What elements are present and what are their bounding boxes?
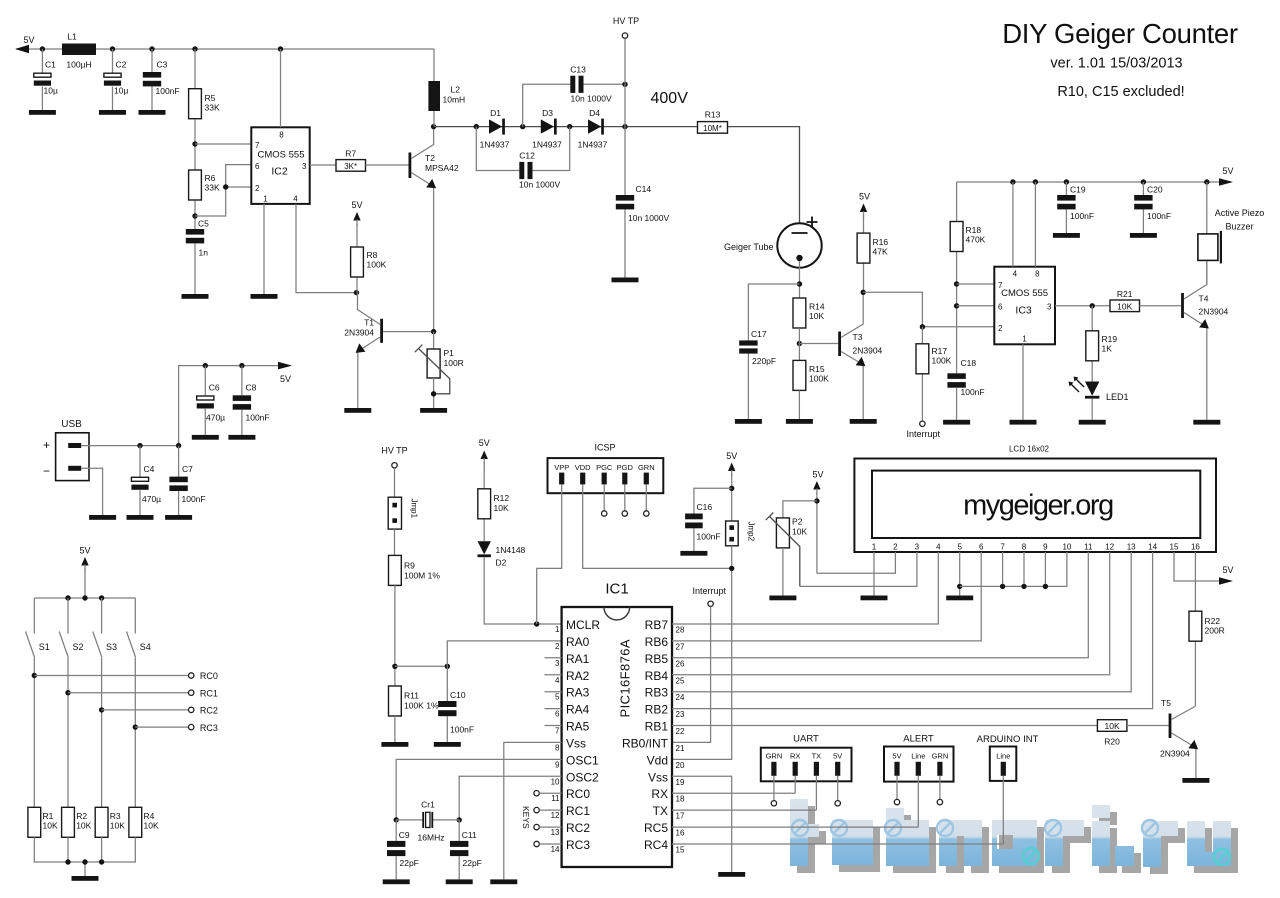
ground C7 (165, 515, 192, 520)
ground C18 (943, 420, 970, 425)
potentiometer P2 (766, 501, 817, 596)
wire ALERT Line to RC5 (672, 776, 918, 827)
svg-text:470µ: 470µ (142, 494, 161, 504)
ground LCD pin5 (946, 596, 973, 601)
svg-text:47K: 47K (873, 247, 888, 257)
wire RC1 net (65, 688, 218, 698)
svg-text:5V: 5V (23, 35, 34, 45)
svg-text:R11: R11 (404, 691, 419, 701)
svg-text:RB0/INT: RB0/INT (622, 736, 669, 750)
ground C19 (1053, 233, 1080, 238)
wire IC3 pin 1 (1022, 344, 1024, 420)
node HV TP branch (622, 124, 627, 129)
svg-text:IC1: IC1 (605, 581, 628, 598)
node rail junction C19 (1064, 179, 1069, 184)
ground P2 (769, 596, 796, 601)
wire IC3 pin 4 (1012, 182, 1014, 267)
Geiger Tube (724, 217, 822, 268)
svg-text:C7: C7 (182, 464, 193, 474)
svg-text:26: 26 (676, 659, 685, 668)
wire IC2 pin 1 to ground (263, 204, 265, 294)
wire ARDUINO Line to RC4 (672, 776, 1003, 844)
diode D1 1N4937 (480, 108, 510, 150)
svg-text:R8: R8 (367, 250, 378, 260)
svg-text:TX: TX (812, 751, 822, 760)
capacitor C8 (233, 366, 270, 435)
svg-text:RC3: RC3 (200, 723, 218, 733)
node IC1 pin numbers right (676, 626, 685, 855)
svg-text:RC2: RC2 (200, 706, 218, 716)
svg-text:D2: D2 (496, 558, 507, 568)
svg-text:7: 7 (998, 281, 1003, 290)
wire IC3 pin7 (957, 283, 995, 285)
svg-text:10K: 10K (76, 821, 91, 831)
svg-text:Cr1: Cr1 (421, 800, 435, 810)
svg-text:D3: D3 (542, 108, 553, 118)
svg-text:5V: 5V (726, 451, 737, 461)
svg-text:7: 7 (1000, 543, 1005, 552)
svg-text:Interrupt: Interrupt (907, 429, 941, 439)
svg-text:C14: C14 (636, 184, 652, 194)
capacitor C11 (450, 820, 482, 880)
svg-text:R6: R6 (205, 173, 216, 183)
svg-text:RB5: RB5 (645, 652, 669, 666)
wire RC0 net (32, 671, 218, 681)
jumper Jmp2 (726, 521, 756, 546)
svg-text:C2: C2 (116, 60, 127, 70)
node C12 right branch (567, 124, 572, 129)
svg-text:RC2: RC2 (566, 821, 590, 835)
svg-text:470K: 470K (966, 235, 986, 245)
node C10 top (445, 664, 450, 669)
node rail junction IC3 pin4 (1010, 179, 1015, 184)
svg-text:RB6: RB6 (645, 635, 669, 649)
ground R15 (786, 419, 813, 424)
svg-text:D4: D4 (589, 108, 600, 118)
node 5V keys (79, 546, 90, 599)
svg-text:16: 16 (1191, 543, 1200, 552)
svg-text:2: 2 (555, 642, 560, 651)
node 5V Jmp2 (726, 451, 737, 521)
connector ICSP (548, 443, 664, 494)
wire LCD pin1 to ground (873, 552, 875, 596)
resistor R21 (1110, 289, 1140, 312)
wire IC2 pin 4 (296, 204, 357, 293)
svg-text:KEYS: KEYS (521, 806, 531, 829)
svg-text:3: 3 (302, 162, 307, 171)
svg-text:8: 8 (279, 131, 284, 140)
svg-text:18: 18 (676, 795, 685, 804)
watermark tehnari.ru (790, 799, 1238, 874)
svg-text:CMOS 555: CMOS 555 (1001, 288, 1048, 299)
wire RB4 to LCD pin12 (672, 552, 1110, 675)
wire HVTP to Jmp1 (394, 468, 396, 497)
diode D3 1N4937 (532, 108, 562, 150)
wire RA1 stub (545, 657, 562, 659)
LED LED1 (1069, 377, 1129, 420)
potentiometer P1 (415, 332, 464, 408)
node Interrupt right (693, 586, 727, 607)
wire RB2 to LCD pin14 (672, 552, 1153, 709)
svg-text:10K: 10K (494, 503, 509, 513)
wire IC3 pin6 (957, 305, 995, 307)
wire R14 R15 (798, 328, 800, 360)
resistor R22 (1189, 552, 1225, 707)
svg-text:10K: 10K (809, 311, 824, 321)
svg-text:22pF: 22pF (463, 858, 482, 868)
svg-text:5V: 5V (833, 751, 842, 760)
ground C6 (192, 435, 219, 440)
capacitor C13 (523, 65, 625, 127)
svg-text:100nF: 100nF (961, 387, 985, 397)
svg-text:10: 10 (1062, 543, 1071, 552)
svg-text:R2: R2 (76, 811, 87, 821)
svg-text:12: 12 (1105, 543, 1114, 552)
ground T4 emitter (1193, 420, 1220, 425)
capacitor C16 (685, 488, 732, 551)
svg-text:3: 3 (555, 659, 560, 668)
ground T1 emitter (344, 408, 371, 413)
node R19 top (1090, 303, 1095, 308)
svg-text:C3: C3 (157, 60, 168, 70)
resistor R18 (950, 182, 985, 373)
svg-text:ALERT: ALERT (903, 734, 934, 745)
svg-text:10M*: 10M* (703, 124, 722, 133)
ground IC2 pin1 (251, 294, 278, 299)
connector ARDUINO INT (977, 734, 1039, 781)
svg-text:RB1: RB1 (645, 720, 669, 734)
svg-text:100nF: 100nF (246, 413, 270, 423)
svg-text:5: 5 (555, 693, 560, 702)
wire Vss pin8 (504, 742, 562, 879)
node IC3 pin6 junction (954, 303, 959, 308)
capacitor C6 (197, 366, 225, 435)
svg-text:RB7: RB7 (645, 618, 669, 632)
svg-text:RC0: RC0 (566, 787, 590, 801)
svg-text:16: 16 (676, 829, 685, 838)
svg-text:9: 9 (555, 760, 560, 769)
svg-text:2N3904: 2N3904 (344, 328, 374, 338)
svg-text:13: 13 (1127, 543, 1136, 552)
svg-text:LCD 16x02: LCD 16x02 (1009, 445, 1050, 454)
wire RA5 stub (545, 725, 562, 727)
svg-text:100K: 100K (932, 356, 952, 366)
svg-text:20: 20 (676, 761, 685, 770)
wire 5V right rail (957, 181, 1231, 183)
switch S1 (26, 598, 50, 807)
svg-text:400V: 400V (651, 90, 689, 107)
transistor T5 2N3904 (1160, 698, 1198, 778)
wire RB7 to LCD pin4 (672, 552, 938, 624)
svg-text:R19: R19 (1102, 334, 1118, 344)
svg-text:100K: 100K (809, 374, 829, 384)
wire IC2 pin 7 (195, 143, 251, 145)
svg-text:R13: R13 (705, 110, 721, 120)
svg-text:ver. 1.01 15/03/2013: ver. 1.01 15/03/2013 (1050, 56, 1182, 72)
wire R9 to R11 (394, 585, 396, 686)
svg-text:PGC: PGC (596, 463, 613, 472)
wire LCD pin9 (1044, 552, 1046, 586)
svg-text:2: 2 (998, 324, 1003, 333)
svg-text:4: 4 (936, 543, 941, 552)
node C16 tap (729, 486, 734, 491)
svg-text:C5: C5 (198, 219, 209, 229)
wire RB6 to LCD pin6 (672, 552, 981, 641)
node C6 junction (203, 363, 208, 368)
resistor R16 (857, 192, 888, 293)
node C8 junction (239, 363, 244, 368)
svg-text:C20: C20 (1147, 185, 1163, 195)
svg-text:16MHz: 16MHz (418, 833, 445, 843)
node keys gnd rail S2 (65, 859, 70, 864)
wire Vss pin19 to ground (672, 776, 732, 872)
node D1 anode (474, 124, 479, 129)
svg-text:100nF: 100nF (182, 494, 206, 504)
wire Jmp1 to R9 (394, 529, 396, 556)
node keys rail 5V (82, 595, 87, 600)
node HV TP (613, 16, 639, 127)
svg-text:8: 8 (555, 743, 560, 752)
display LCD 16x02 (854, 445, 1216, 553)
capacitor C9 (387, 820, 419, 880)
svg-text:Line: Line (996, 751, 1010, 760)
node T1 base P1 (431, 329, 436, 334)
svg-text:5V: 5V (1222, 565, 1233, 575)
ground keys (72, 876, 99, 881)
svg-text:RB4: RB4 (645, 669, 669, 683)
svg-text:Line: Line (911, 751, 925, 760)
node bus pin9 (1043, 584, 1048, 589)
svg-text:RA3: RA3 (566, 686, 590, 700)
node C13 right (622, 82, 627, 87)
capacitor C3 (143, 46, 180, 110)
capacitor C2 (104, 46, 129, 110)
capacitor C12 (476, 127, 569, 190)
resistor R2 (62, 807, 92, 837)
svg-text:4: 4 (555, 676, 560, 685)
svg-text:5V: 5V (479, 438, 490, 448)
ground C16 (680, 551, 707, 556)
node rail junction buzzer (1204, 179, 1209, 184)
resistor R4 (129, 807, 159, 837)
svg-text:C18: C18 (961, 358, 977, 368)
wire RB3 to LCD pin13 (672, 552, 1131, 692)
wire UART TX (672, 776, 816, 810)
svg-text:C6: C6 (209, 383, 220, 393)
svg-text:GRN: GRN (638, 463, 655, 472)
svg-text:RC1: RC1 (200, 688, 218, 698)
svg-text:R12: R12 (494, 493, 510, 503)
svg-text:1N4148: 1N4148 (496, 545, 526, 555)
svg-text:R14: R14 (809, 302, 825, 312)
node P2 junction (814, 498, 819, 503)
node rail junction IC3 pin8 (1033, 179, 1038, 184)
svg-text:T1: T1 (364, 318, 374, 328)
transistor T1 2N3904 (344, 293, 433, 408)
svg-text:S2: S2 (73, 642, 84, 652)
svg-text:Buzzer: Buzzer (1225, 222, 1253, 232)
transistor T4 2N3904 (1181, 260, 1228, 419)
node VPP junction (534, 621, 539, 626)
connector USB (43, 419, 89, 481)
node IC1 pin numbers left (551, 625, 560, 854)
wire UART GRN (771, 776, 776, 806)
ground LED1 (1079, 420, 1106, 425)
svg-text:100µH: 100µH (66, 60, 91, 70)
svg-text:5V: 5V (812, 470, 823, 480)
svg-text:15: 15 (1170, 543, 1179, 552)
svg-text:RX: RX (651, 787, 668, 801)
diode D2 1N4148 (478, 541, 526, 567)
svg-text:ARDUINO INT: ARDUINO INT (977, 734, 1039, 745)
svg-text:S4: S4 (140, 642, 151, 652)
svg-text:RB3: RB3 (645, 686, 669, 700)
wire ALERT GRN (937, 776, 942, 805)
op-amp U1 microcontroller IC1 PIC16F876A (562, 581, 672, 868)
node bus pin8 (1021, 584, 1026, 589)
node KEYS RC1 (534, 807, 562, 812)
svg-text:21: 21 (676, 744, 685, 753)
ground C5 (182, 294, 209, 299)
node OSC1 junction (394, 817, 399, 822)
svg-text:220pF: 220pF (752, 356, 776, 366)
svg-text:2: 2 (255, 184, 260, 193)
resistor R13 (698, 110, 728, 134)
svg-text:RC4: RC4 (644, 838, 668, 852)
svg-text:5: 5 (957, 543, 962, 552)
svg-text:R9: R9 (404, 561, 415, 571)
svg-text:RC0: RC0 (200, 671, 218, 681)
inductor L2 (428, 49, 465, 127)
svg-text:T5: T5 (1161, 698, 1171, 708)
resistor R7 (336, 149, 366, 172)
node T3 base junction (797, 341, 802, 346)
node C5 top (192, 213, 197, 218)
node HV TP left (381, 446, 407, 468)
ground C14 (612, 278, 639, 283)
node KEYS RC2 (534, 824, 562, 829)
svg-text:RX: RX (790, 751, 800, 760)
ground C3 (139, 110, 166, 115)
ground C17 (735, 419, 762, 424)
svg-text:R5: R5 (205, 93, 216, 103)
jumper Jmp1 (388, 497, 418, 529)
svg-text:C13: C13 (570, 65, 586, 75)
wire tube cathode (799, 261, 801, 298)
svg-text:T4: T4 (1199, 294, 1209, 304)
svg-text:−: − (43, 464, 50, 478)
svg-text:R3: R3 (110, 811, 121, 821)
node IC3 pin7 junction (954, 281, 959, 286)
svg-text:33K: 33K (205, 103, 220, 113)
wire Jmp2 to Vdd pin20 (672, 546, 732, 760)
wire R21 to T4 base (1140, 305, 1182, 307)
svg-text:R21: R21 (1117, 289, 1133, 299)
wire IC2 pin 3 (310, 164, 336, 166)
svg-text:3: 3 (1047, 303, 1052, 312)
svg-text:2N3904: 2N3904 (1199, 307, 1229, 317)
wire R7 to T2 base (366, 164, 409, 166)
svg-text:1K: 1K (1102, 344, 1113, 354)
node 5V right arrow (1219, 178, 1233, 186)
svg-text:100M 1%: 100M 1% (404, 571, 440, 581)
svg-text:5V: 5V (859, 192, 870, 202)
ground C8 (228, 435, 255, 440)
wire node to C10 (395, 665, 447, 667)
ground C9 (383, 879, 410, 884)
transistor T3 2N3904 (838, 292, 882, 419)
ground LCD pin1 (861, 596, 888, 601)
switch S4 (127, 598, 151, 807)
node LCD bus pin5 (957, 584, 962, 589)
node Interrupt left (920, 421, 925, 426)
svg-text:1n: 1n (199, 248, 209, 258)
ground C2 (99, 110, 126, 115)
svg-text:MPSA42: MPSA42 (425, 163, 459, 173)
ground T5 emitter (1182, 778, 1209, 783)
svg-text:GRN: GRN (932, 751, 949, 760)
svg-text:TX: TX (653, 804, 668, 818)
svg-text:100nF: 100nF (1070, 211, 1094, 221)
wire RA4 stub (545, 708, 562, 710)
svg-text:RC5: RC5 (644, 821, 668, 835)
wire RB1 to R20 (672, 725, 1097, 727)
node keys rail S2 (65, 595, 70, 600)
resistor R3 (95, 807, 125, 837)
svg-text:24: 24 (676, 693, 685, 702)
node KEYS RC3 (534, 841, 562, 846)
svg-text:OSC2: OSC2 (566, 770, 599, 784)
svg-text:L2: L2 (451, 85, 461, 95)
resistor R6 (189, 170, 220, 200)
svg-text:10: 10 (551, 777, 560, 786)
svg-text:T3: T3 (853, 332, 863, 342)
wire keys top rail (34, 597, 135, 599)
svg-text:10K: 10K (43, 821, 58, 831)
svg-text:C8: C8 (246, 383, 257, 393)
svg-text:7: 7 (255, 141, 260, 150)
svg-text:10n 1000V: 10n 1000V (571, 94, 612, 104)
svg-text:R22: R22 (1205, 616, 1221, 626)
svg-text:1: 1 (263, 195, 268, 204)
capacitor C7 (169, 446, 205, 515)
node keys rail S3 (99, 595, 104, 600)
wire T3 collector to IC3 pin2 (863, 292, 994, 327)
wire LCD pin7 (1002, 552, 1004, 586)
svg-text:6: 6 (979, 543, 984, 552)
svg-text:GRN: GRN (766, 751, 783, 760)
svg-text:100R: 100R (444, 358, 464, 368)
ground Vss pin19 (718, 872, 745, 877)
svg-text:R20: R20 (1104, 737, 1120, 747)
svg-text:8: 8 (1035, 270, 1040, 279)
svg-text:100nF: 100nF (156, 86, 180, 96)
ground P1 (420, 408, 447, 413)
capacitor C18 (947, 358, 984, 420)
svg-text:100K: 100K (367, 260, 387, 270)
svg-text:Jmp1: Jmp1 (410, 499, 419, 519)
svg-text:C10: C10 (450, 690, 466, 700)
svg-text:R15: R15 (809, 364, 825, 374)
wire LCD pin15 to 5V (1174, 552, 1231, 581)
node 5V usb arrow (278, 362, 292, 370)
diode D4 1N4937 (578, 108, 608, 150)
svg-text:17: 17 (676, 812, 685, 821)
svg-text:Vdd: Vdd (647, 753, 668, 767)
svg-text:R17: R17 (932, 346, 948, 356)
svg-text:2N3904: 2N3904 (853, 346, 883, 356)
crystal Cr1 16MHz (396, 800, 459, 843)
